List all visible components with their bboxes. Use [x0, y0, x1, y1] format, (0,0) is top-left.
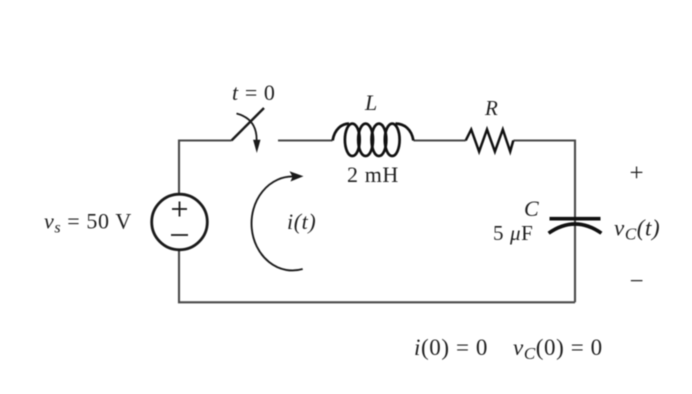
svg-text:−: − [630, 268, 645, 295]
source polarity marks + / - [171, 202, 188, 236]
i(t) arrowhead [290, 171, 304, 181]
resistor R [466, 130, 514, 152]
svg-text:vs = 50 V: vs = 50 V [44, 209, 132, 237]
svg-text:C: C [524, 196, 539, 221]
inductor L [333, 124, 414, 156]
current arrow i(t) [252, 176, 303, 270]
switch arrowhead [253, 140, 260, 153]
voltage source VS [152, 194, 208, 250]
svg-text:i(0) = 0: i(0) = 0 [414, 335, 488, 360]
wire: inductor to resistor [414, 139, 466, 141]
svg-text:+: + [630, 160, 645, 187]
capacitor C [549, 219, 602, 234]
wire: resistor to top-right corner and down to capacitor [513, 141, 575, 303]
svg-text:vC(0) = 0: vC(0) = 0 [513, 335, 603, 363]
svg-text:t = 0: t = 0 [232, 80, 276, 105]
svg-text:L: L [364, 90, 378, 115]
wire: capacitor to bottom-right corner, bottom wire, up to source [179, 250, 575, 302]
wire: top-left horizontal segment to switch [179, 141, 232, 195]
svg-text:vC(t): vC(t) [614, 216, 660, 244]
wire: switch right contact to inductor [278, 139, 333, 141]
svg-text:2 mH: 2 mH [347, 162, 399, 187]
switch S1 (opens at t=0) [232, 108, 265, 142]
svg-text:i(t): i(t) [287, 209, 316, 234]
svg-text:R: R [484, 96, 498, 120]
svg-text:5 μF: 5 μF [493, 221, 533, 245]
